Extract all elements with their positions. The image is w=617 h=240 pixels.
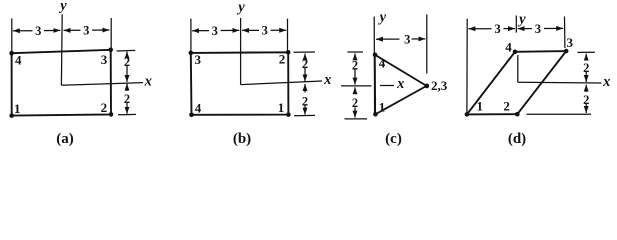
svg-text:2: 2 xyxy=(279,52,286,67)
svg-text:3: 3 xyxy=(404,32,410,46)
node 2 of figure a xyxy=(109,112,114,117)
svg-text:(c): (c) xyxy=(385,131,402,147)
x axis figure d xyxy=(518,81,602,84)
svg-text:3: 3 xyxy=(494,22,500,36)
x axis label figure a xyxy=(144,74,152,90)
label node 1 figure c xyxy=(379,100,386,115)
y axis label figure c xyxy=(378,10,387,26)
triangle edge 1 to 23 figure c xyxy=(375,86,426,115)
dimension 3 left figure a xyxy=(13,29,61,31)
y axis figure c xyxy=(373,17,375,115)
dimension 3 right figure b xyxy=(242,29,286,31)
x axis label figure d xyxy=(602,74,610,90)
dimension 3 label figure c xyxy=(404,32,410,46)
node 1 of figure a xyxy=(9,113,14,118)
bottom extension line figure d xyxy=(527,113,591,115)
svg-text:(a): (a) xyxy=(56,131,74,147)
extension line left figure d xyxy=(466,19,468,113)
node 4 of figure c xyxy=(373,53,378,58)
extension line left figure b xyxy=(190,19,192,52)
svg-text:4: 4 xyxy=(15,53,22,68)
triangle edge 4 to 1 figure c xyxy=(374,55,376,115)
svg-text:3: 3 xyxy=(535,22,541,36)
dimension 3 right label figure d xyxy=(535,22,541,36)
dimension 3 figure c xyxy=(376,38,425,40)
dimension 3 left label figure d xyxy=(494,22,500,36)
dimension 2 lower figure d xyxy=(585,85,587,113)
svg-text:2: 2 xyxy=(101,100,108,115)
svg-text:y: y xyxy=(517,11,526,27)
label node 3 figure d xyxy=(567,35,574,50)
svg-text:(d): (d) xyxy=(508,131,526,147)
node 4 of figure b xyxy=(189,113,194,118)
node 1 of figure b xyxy=(286,112,291,117)
triangle edge 4 to 23 figure c xyxy=(375,55,427,86)
tick top right dim figure d xyxy=(577,51,595,53)
dimension 3 left figure b xyxy=(192,29,239,31)
svg-text:y: y xyxy=(378,10,387,26)
dimension 2 upper label figure b xyxy=(302,57,308,71)
svg-text:3: 3 xyxy=(212,24,218,38)
svg-text:y: y xyxy=(236,0,245,15)
tick bottom left dim figure c xyxy=(345,118,368,120)
dimension 2 upper label figure c xyxy=(352,59,358,73)
svg-text:1: 1 xyxy=(14,101,21,116)
extension line right figure c xyxy=(426,14,428,73)
svg-text:3: 3 xyxy=(262,24,268,38)
extension line right figure b xyxy=(287,19,289,52)
dimension 3 right figure d xyxy=(518,27,564,29)
dimension 2 lower figure c xyxy=(354,87,356,117)
svg-text:3: 3 xyxy=(35,24,41,38)
dimension 2 lower label figure a xyxy=(124,92,130,106)
node 2 of figure d xyxy=(515,112,520,117)
svg-text:4: 4 xyxy=(505,39,512,54)
label node 3 figure a xyxy=(101,52,108,67)
node 3 of figure a xyxy=(108,48,113,53)
node 4 of figure a xyxy=(9,51,14,56)
svg-text:x: x xyxy=(323,72,331,88)
dimension 2 lower label figure b xyxy=(302,94,308,108)
y axis figure b xyxy=(240,18,242,85)
figure b: rectangle element xyxy=(191,52,289,115)
node 4 of figure d xyxy=(513,50,518,55)
label node 2 figure b xyxy=(279,52,286,67)
svg-text:4: 4 xyxy=(195,101,202,116)
tick bottom right dim figure b xyxy=(294,114,315,116)
node 3 of figure b xyxy=(189,51,194,56)
x axis figure b xyxy=(241,81,322,85)
caption b xyxy=(233,131,251,147)
dimension 2 upper figure d xyxy=(585,54,587,82)
tick middle left dim figure c xyxy=(341,85,372,87)
dimension 2 lower figure b xyxy=(304,84,306,115)
x axis dash figure c xyxy=(380,85,394,87)
svg-text:3: 3 xyxy=(195,52,202,67)
svg-text:1: 1 xyxy=(379,100,386,115)
label node 23 figure c xyxy=(431,78,448,93)
svg-text:2: 2 xyxy=(583,61,589,75)
dimension 2 upper figure b xyxy=(304,54,306,82)
label node 4 figure c xyxy=(379,56,386,71)
y axis label figure d xyxy=(517,11,526,27)
dimension 3 left label figure b xyxy=(212,24,218,38)
label node 1 figure b xyxy=(278,100,285,115)
node 1 of figure d xyxy=(465,112,470,117)
caption d xyxy=(508,131,526,147)
dimension 2 upper figure a xyxy=(126,52,128,82)
caption a xyxy=(56,131,74,147)
svg-text:x: x xyxy=(396,76,404,92)
extension line right figure d xyxy=(564,17,566,49)
svg-text:2,3: 2,3 xyxy=(431,78,448,93)
dimension 3 left figure d xyxy=(468,28,515,30)
dimension 3 right figure a xyxy=(64,29,110,31)
dimension 3 left label figure a xyxy=(35,24,41,38)
y axis label figure b xyxy=(236,0,245,15)
dimension 2 upper label figure d xyxy=(583,61,589,75)
svg-text:(b): (b) xyxy=(233,131,251,147)
node 3 of figure d xyxy=(564,49,569,54)
svg-text:2: 2 xyxy=(503,99,510,114)
dimension 2 lower label figure c xyxy=(352,96,358,110)
tick top right dim figure a xyxy=(117,49,136,52)
svg-text:2: 2 xyxy=(352,59,358,73)
label node 4 figure b xyxy=(195,101,202,116)
y axis label figure a xyxy=(58,0,67,14)
node 23 of figure c xyxy=(424,84,429,89)
dimension 3 right label figure b xyxy=(262,24,268,38)
dimension 2 upper figure c xyxy=(354,53,356,84)
x axis figure a xyxy=(61,83,143,86)
svg-text:1: 1 xyxy=(278,100,285,115)
svg-text:x: x xyxy=(602,74,610,90)
svg-text:x: x xyxy=(144,74,152,90)
svg-text:3: 3 xyxy=(567,35,574,50)
label node 4 figure d xyxy=(505,39,512,54)
parallelogram figure d xyxy=(467,51,566,114)
svg-text:2: 2 xyxy=(352,96,358,110)
caption c xyxy=(385,131,402,147)
y axis tick top figure d xyxy=(515,16,517,33)
label node 1 figure d xyxy=(477,99,484,114)
svg-text:3: 3 xyxy=(83,24,89,38)
svg-text:2: 2 xyxy=(302,57,308,71)
y axis figure a xyxy=(60,14,63,85)
svg-text:y: y xyxy=(58,0,67,14)
dimension 2 lower figure a xyxy=(126,84,128,114)
svg-text:2: 2 xyxy=(302,94,308,108)
label node 1 figure a xyxy=(14,101,21,116)
label node 4 figure a xyxy=(15,53,22,68)
figure a: rectangle element xyxy=(12,50,111,116)
tick top right dim figure b xyxy=(294,51,316,53)
x axis label figure c xyxy=(396,76,404,92)
extension line left figure a xyxy=(11,19,13,53)
dimension 2 lower label figure d xyxy=(583,93,589,107)
dimension 2 upper label figure a xyxy=(124,55,130,69)
y axis interior figure d xyxy=(517,55,519,82)
svg-text:1: 1 xyxy=(477,99,484,114)
extension line right figure a xyxy=(110,18,112,50)
svg-text:2: 2 xyxy=(583,93,589,107)
tick top left dim figure c xyxy=(347,51,363,53)
label node 2 figure a xyxy=(101,100,108,115)
svg-text:3: 3 xyxy=(101,52,108,67)
svg-text:2: 2 xyxy=(124,55,130,69)
x axis label figure b xyxy=(323,72,331,88)
svg-text:2: 2 xyxy=(124,92,130,106)
label node 2 figure d xyxy=(503,99,510,114)
svg-text:4: 4 xyxy=(379,56,386,71)
node 1 of figure c xyxy=(373,112,378,117)
dimension 3 right label figure a xyxy=(83,24,89,38)
tick bottom right dim figure a xyxy=(118,113,136,115)
label node 3 figure b xyxy=(195,52,202,67)
node 2 of figure b xyxy=(286,50,291,55)
